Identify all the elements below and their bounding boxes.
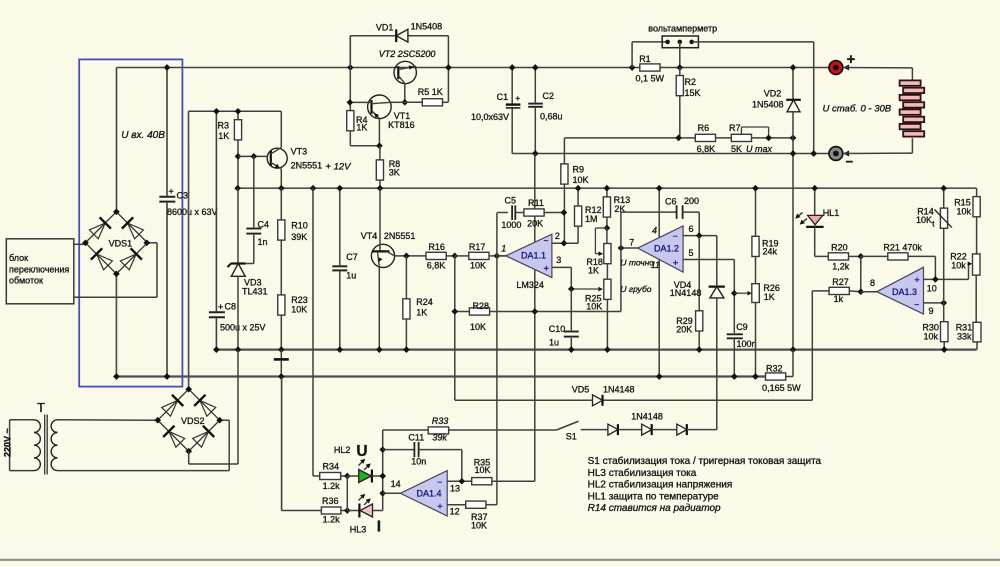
junction VDS2 ac left: [154, 417, 161, 424]
svg-text:1N5408: 1N5408: [752, 100, 784, 110]
op-amp DA1.2: [629, 224, 693, 272]
junction R20 R21: [857, 253, 864, 260]
junction R19 at +12V rail: [752, 185, 759, 192]
svg-text:15K: 15K: [685, 88, 701, 98]
wire VT2 collector down: [404, 84, 406, 103]
junction R26 at aux rail: [752, 373, 759, 380]
node winding-switch boundary box: [79, 59, 182, 386]
svg-text:R33: R33: [432, 416, 449, 426]
svg-text:5K: 5K: [731, 144, 742, 154]
wire VT1 base: [350, 101, 372, 103]
svg-text:1.2k: 1.2k: [323, 514, 341, 524]
svg-text:10K: 10K: [916, 215, 932, 225]
svg-text:+: +: [437, 501, 443, 512]
svg-text:VT3: VT3: [291, 146, 308, 156]
wire VT3 collector: [280, 111, 282, 147]
diode chain D2 1N4148: [631, 412, 663, 435]
svg-text:S1: S1: [566, 432, 577, 442]
junction R25 at ground: [604, 346, 611, 353]
svg-text:VDS1: VDS1: [109, 238, 133, 248]
svg-text:1,2k: 1,2k: [832, 262, 850, 272]
transistor VT2: [379, 49, 436, 84]
resistor R24: [403, 256, 433, 350]
junction pin10 R21: [932, 276, 939, 283]
svg-text:10k: 10k: [957, 207, 972, 217]
wire negative output rail: [512, 153, 829, 155]
svg-text:10K: 10K: [475, 465, 491, 475]
wire VT3 emitter: [280, 169, 282, 188]
junction VT4 emitter at ground: [376, 346, 383, 353]
wire R27 to current set node: [811, 291, 813, 400]
resistor R9: [561, 138, 589, 243]
junction pin4 at +12V rail: [656, 185, 663, 192]
transistor VT1: [368, 95, 415, 130]
wire DA1.2 pin4 supply: [658, 188, 660, 238]
junction VT2 collector at R5: [401, 99, 408, 106]
junction R14 at +12V rail: [940, 185, 947, 192]
wire DA1.2 pin6: [683, 235, 717, 237]
junction aux rail left end: [113, 373, 120, 380]
resistor R36: [282, 496, 348, 524]
svg-text:C4: C4: [258, 219, 270, 229]
led HL2: [334, 445, 383, 483]
svg-text:T: T: [37, 400, 45, 415]
wire DA1.1 output feedback column: [496, 213, 498, 505]
resistor R21: [861, 243, 936, 280]
svg-text:вольтамперметр: вольтамперметр: [648, 24, 717, 34]
svg-text:C11: C11: [408, 432, 424, 442]
wire feedback tap row: [564, 137, 695, 139]
junction HL2 cathode: [379, 473, 386, 480]
wire pin7 down: [620, 248, 622, 312]
junction VDS2 minus: [185, 448, 192, 455]
wire block to VDS1 right: [74, 243, 157, 297]
svg-text:HL2 стабилизация напряжения: HL2 стабилизация напряжения: [588, 479, 733, 491]
svg-text:200: 200: [684, 196, 699, 206]
wire DA1.4 pin13: [447, 480, 471, 482]
label U tochno: [620, 258, 654, 268]
capacitor C11: [383, 432, 462, 481]
svg-text:10n: 10n: [411, 456, 426, 466]
svg-text:10K: 10K: [471, 520, 487, 530]
svg-text:+: +: [218, 302, 223, 312]
svg-text:−: −: [846, 154, 854, 169]
svg-text:R17: R17: [469, 242, 486, 252]
op-amp DA1.4: [391, 471, 460, 517]
wire DA1.3 pin10: [924, 264, 969, 280]
wire VT1 collector to node: [391, 101, 405, 103]
svg-text:−: −: [437, 477, 442, 487]
junction HL1 at +12V rail: [811, 185, 818, 192]
svg-text:24k: 24k: [763, 247, 778, 257]
svg-text:HL1 защита по температуре: HL1 защита по температуре: [588, 491, 720, 502]
terminal plus: [829, 51, 856, 74]
svg-text:VDS2: VDS2: [181, 416, 205, 426]
svg-text:2N5551: 2N5551: [291, 160, 323, 170]
junction R34 feed at +12V rail: [310, 185, 317, 192]
junction pin9 node: [940, 300, 947, 307]
svg-text:VD1: VD1: [376, 22, 394, 32]
svg-text:220V ~: 220V ~: [3, 428, 13, 457]
junction +12V rail left end: [234, 185, 241, 192]
potentiometer R25: [571, 279, 611, 349]
svg-text:1u: 1u: [346, 271, 356, 281]
resistor R4: [347, 36, 380, 146]
svg-text:U max: U max: [746, 144, 773, 154]
svg-text:1K: 1K: [218, 131, 229, 141]
wire meter left lead: [632, 42, 667, 68]
junction R1 left: [629, 64, 636, 71]
svg-text:R7: R7: [729, 123, 741, 133]
svg-text:C10: C10: [549, 324, 566, 334]
svg-text:обмоток: обмоток: [9, 276, 43, 286]
junction R12 at +12V rail: [575, 185, 582, 192]
wire VD1 right down to R5: [447, 36, 449, 102]
junction pin3 R25 wiper C10: [568, 286, 575, 293]
svg-text:6,8K: 6,8K: [697, 144, 716, 154]
svg-text:2: 2: [555, 231, 560, 241]
svg-text:R11: R11: [528, 198, 544, 208]
svg-text:U точно: U точно: [620, 258, 654, 268]
label U vx 40V: [121, 130, 165, 141]
junction VD1 right at positive rail: [445, 64, 452, 71]
svg-text:+: +: [914, 275, 920, 286]
capacitor C6: [621, 196, 699, 248]
svg-text:+: +: [544, 264, 550, 275]
svg-text:10k: 10k: [951, 260, 966, 270]
svg-text:R1: R1: [639, 54, 651, 64]
junction DA1.3 pin8 node: [857, 288, 864, 295]
svg-text:VD5: VD5: [572, 385, 590, 395]
svg-text:C1: C1: [497, 92, 509, 102]
junction R29 at ground: [696, 346, 703, 353]
wire minus terminal to load: [843, 138, 912, 156]
diode VD4: [670, 236, 725, 430]
wire VD5 row: [455, 399, 813, 401]
svg-text:C8: C8: [225, 301, 237, 311]
svg-text:R14 ставится на радиатор: R14 ставится на радиатор: [588, 503, 721, 514]
led HL3: [347, 494, 382, 535]
svg-text:HL3 стабилизация тока: HL3 стабилизация тока: [588, 467, 697, 479]
junction C8 top: [213, 108, 220, 115]
junction pin14 node: [379, 490, 386, 497]
svg-text:+: +: [169, 187, 174, 197]
junction C1 top: [509, 64, 516, 71]
svg-text:C2: C2: [543, 91, 555, 101]
junction R13 R18: [604, 225, 611, 232]
junction R3 top: [235, 108, 242, 115]
junction VD1 left at positive rail: [347, 64, 354, 71]
svg-text:1N5408: 1N5408: [411, 22, 443, 32]
junction pin5 R26 wiper: [731, 290, 738, 297]
junction aux rail at R36 column: [278, 373, 285, 380]
svg-text:13: 13: [450, 483, 460, 493]
svg-text:1N4148: 1N4148: [631, 412, 663, 422]
wire R33 to S1: [449, 429, 557, 431]
resistor R34: [313, 461, 347, 491]
junction C11 left: [379, 446, 386, 453]
wire R34 R36 tie: [346, 476, 348, 511]
wire VD1 left down: [349, 36, 351, 68]
junction C3 bottom: [164, 373, 171, 380]
wire R16R17 node down to VD5 row: [454, 256, 456, 400]
resistor R11: [524, 198, 564, 229]
svg-text:20K: 20K: [527, 219, 543, 229]
junction pin13 node: [458, 478, 465, 485]
svg-text:10: 10: [927, 284, 937, 294]
svg-text:33k: 33k: [957, 332, 972, 342]
svg-text:R32: R32: [766, 364, 783, 374]
svg-text:0,165 5W: 0,165 5W: [762, 383, 801, 393]
svg-text:10,0x63V: 10,0x63V: [471, 112, 509, 122]
wire D2 to D3: [652, 429, 677, 431]
resistor R29: [676, 311, 703, 350]
svg-text:39K: 39K: [291, 232, 307, 242]
svg-text:1K: 1K: [588, 265, 599, 275]
capacitor C2: [528, 68, 562, 154]
thermistor R14: [916, 188, 952, 303]
wire page bottom border: [0, 559, 1000, 561]
junction R1 right R2 top: [676, 64, 683, 71]
svg-text:KT816: KT816: [388, 120, 415, 130]
wire HL1 to R20: [815, 227, 828, 257]
wire raw winding line down to VDS2: [188, 111, 190, 389]
op-amp DA1.3: [870, 267, 937, 316]
wire DA1.1 output: [497, 255, 506, 257]
junction C7 top: [336, 185, 343, 192]
resistor R2: [676, 68, 700, 138]
transistor VT4: [361, 188, 416, 349]
svg-text:VT2 2SC5200: VT2 2SC5200: [379, 49, 436, 59]
junction VDS1 minus: [113, 271, 120, 278]
junction R16 R17: [451, 253, 458, 260]
wire R22 wiper arrow: [968, 262, 973, 267]
wire DA1.4 output node column: [382, 430, 384, 511]
wire pin6 down to R29: [698, 236, 700, 311]
wire ground rail: [216, 349, 976, 351]
label I: [377, 519, 381, 536]
terminal minus: [829, 147, 854, 169]
svg-text:C3: C3: [177, 191, 189, 201]
capacitor C1: [471, 68, 520, 154]
junction VDS2 ac right: [216, 417, 223, 424]
junction R7 wiper: [765, 135, 772, 142]
svg-text:R6: R6: [698, 123, 710, 133]
svg-text:9: 9: [929, 306, 934, 316]
svg-text:1M: 1M: [585, 214, 598, 224]
svg-text:U стаб. 0 - 30В: U стаб. 0 - 30В: [823, 104, 892, 115]
svg-text:R34: R34: [323, 461, 340, 471]
wire meter center lead: [679, 42, 681, 68]
svg-text:DA1.2: DA1.2: [654, 244, 679, 254]
svg-text:3K: 3K: [389, 168, 400, 178]
potentiometer R22: [950, 252, 980, 323]
svg-text:4: 4: [652, 225, 657, 235]
junction R13 at +12V rail: [604, 185, 611, 192]
wire negative aux rail: [116, 375, 765, 377]
svg-text:8: 8: [870, 278, 875, 288]
svg-text:DA1.1: DA1.1: [521, 251, 546, 261]
resistor R1: [636, 54, 665, 83]
resistor R12: [575, 188, 602, 243]
svg-text:5: 5: [689, 248, 694, 258]
wire S1 to diode chain: [581, 429, 608, 431]
svg-text:1u: 1u: [549, 338, 559, 348]
wire DA1.1 pin3: [552, 267, 571, 289]
svg-text:TL431: TL431: [242, 287, 268, 297]
junction C9 at aux rail: [731, 373, 738, 380]
node winding switch block: [6, 239, 74, 304]
diode VD1: [350, 22, 448, 42]
junction VDS1 plus: [113, 208, 120, 215]
shunt regulator VD3 TL431: [228, 188, 268, 349]
svg-text:12: 12: [450, 507, 460, 517]
capacitor C8: [209, 111, 266, 349]
resistor R37: [466, 501, 497, 530]
svg-text:−: −: [914, 300, 919, 310]
junction meter to negative rail: [810, 150, 817, 157]
svg-text:C9: C9: [736, 322, 748, 332]
junction C3 top: [164, 64, 171, 71]
junction VD2 at negative rail: [790, 150, 797, 157]
junction pin6 node: [696, 232, 703, 239]
label U stab: [823, 104, 892, 115]
wire VT1 emitter down: [378, 118, 380, 146]
diode VD2: [752, 68, 801, 350]
svg-text:R24: R24: [416, 297, 433, 307]
svg-text:0,1 5W: 0,1 5W: [636, 74, 665, 84]
wire DA1.2 pin11 to aux rail: [658, 260, 660, 377]
resistor R16: [395, 242, 455, 271]
bridge rectifier VDS1: [85, 212, 147, 274]
junction DA1.1 output node: [494, 253, 501, 260]
junction VDS2 plus: [185, 386, 192, 393]
svg-text:блок: блок: [9, 253, 28, 263]
svg-text:R21 470k: R21 470k: [883, 243, 922, 253]
transistor VT3: [267, 146, 322, 170]
svg-text:R16: R16: [428, 242, 445, 252]
panel meter voltammeter: [648, 24, 717, 48]
resistor R3: [218, 111, 242, 156]
led HL1: [795, 188, 839, 227]
junction C10 at ground: [568, 346, 575, 353]
svg-text:100n: 100n: [737, 339, 757, 349]
svg-text:R28: R28: [473, 301, 490, 311]
svg-text:LM324: LM324: [516, 280, 544, 290]
wire DA1.2 pin7 output: [621, 247, 638, 249]
junction TL431 anode at ground rail: [235, 346, 242, 353]
junction R28 right: [531, 308, 538, 315]
resistor R19: [752, 188, 779, 284]
junction R34 HL2: [344, 473, 351, 480]
switch S1: [557, 421, 579, 441]
svg-text:S1 стабилизация тока / тригерн: S1 стабилизация тока / тригерная токовая…: [588, 455, 822, 467]
svg-text:20K: 20K: [676, 325, 692, 335]
svg-text:1K: 1K: [764, 292, 775, 302]
svg-text:VD2: VD2: [764, 88, 782, 98]
junction pin7 node: [618, 245, 625, 252]
resistor R23: [278, 295, 308, 350]
wire block to VDS1 left: [74, 243, 86, 245]
svg-text:R9: R9: [573, 165, 585, 175]
svg-text:−: −: [673, 231, 678, 241]
capacitor C7: [332, 188, 358, 349]
junction R4 top at VT1 base: [347, 99, 354, 106]
svg-text:10K: 10K: [470, 322, 486, 332]
wire VDS2 minus return: [189, 350, 238, 464]
svg-text:R27: R27: [832, 277, 849, 287]
svg-text:+: +: [515, 93, 520, 103]
label +12V: [325, 162, 352, 173]
load resistor: [900, 80, 925, 136]
svg-text:10k: 10k: [924, 332, 939, 342]
wire R26 wiper arrow: [734, 291, 752, 296]
svg-text:HL1: HL1: [823, 208, 840, 218]
label U: [356, 443, 367, 460]
junction R9 R11: [561, 209, 568, 216]
junction pin11 at aux rail: [656, 373, 663, 380]
svg-text:10K: 10K: [291, 305, 307, 315]
wire secondary top to VDS2: [58, 419, 158, 421]
junction C2 top: [532, 64, 539, 71]
svg-text:HL2: HL2: [334, 445, 351, 455]
junction C8 bottom: [213, 346, 220, 353]
resistor R13: [603, 188, 630, 228]
svg-text:1K: 1K: [356, 123, 367, 133]
bridge rectifier VDS2: [158, 389, 220, 451]
junction R36 HL3: [344, 507, 351, 514]
svg-text:1: 1: [501, 243, 506, 253]
junction +12V at R10: [278, 185, 285, 192]
junction R6 row at VD2 line: [790, 135, 797, 142]
wire pin7 row to R28: [535, 311, 621, 313]
resistor R31: [956, 322, 981, 349]
junction C4 top: [250, 153, 257, 160]
wire negative rail sense column: [534, 154, 536, 482]
wire DA1.3 pin9: [924, 302, 944, 304]
capacitor C5: [497, 196, 524, 230]
svg-text:2N5551: 2N5551: [384, 231, 416, 241]
junction R23 at ground rail: [278, 346, 285, 353]
capacitor C3: [159, 68, 217, 377]
svg-text:3: 3: [556, 255, 561, 265]
junction VT4 collector node: [403, 253, 410, 260]
svg-text:+: +: [673, 258, 679, 269]
junction R8 at +12V rail: [377, 185, 384, 192]
svg-text:R36: R36: [322, 496, 339, 506]
svg-text:R10: R10: [291, 221, 308, 231]
svg-text:U: U: [356, 443, 367, 460]
wire R3 bottom to +12V rail: [237, 156, 239, 188]
label U grubo: [620, 284, 651, 294]
resistor R32: [762, 350, 801, 394]
op-amp DA1.1: [501, 231, 561, 290]
svg-text:1N4148: 1N4148: [603, 385, 635, 395]
wire D3 to VD4: [687, 429, 717, 431]
svg-text:переключения: переключения: [9, 264, 69, 274]
resistor R15: [954, 188, 980, 254]
wire plus terminal to load: [843, 65, 912, 81]
junction R30 at ground: [941, 346, 948, 353]
svg-text:I: I: [377, 519, 381, 536]
junction R28 left: [451, 308, 458, 315]
potentiometer R26: [752, 283, 780, 377]
wire VDS1 bottom to aux rail: [115, 274, 117, 377]
svg-text:10K: 10K: [573, 175, 589, 185]
diode chain D3 1N4148: [677, 424, 687, 435]
wire DA1.2 pin5: [683, 260, 734, 334]
junction VDS1 ac left: [82, 239, 89, 246]
